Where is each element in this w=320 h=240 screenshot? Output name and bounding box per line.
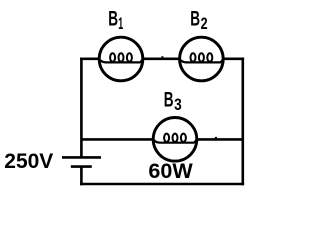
label B1 [108,7,123,33]
wire left vertical (battery + to top branch) [80,58,83,158]
battery positive plate (long) [62,156,101,159]
svg-text:3: 3 [174,95,182,114]
svg-text:250V: 250V [4,150,53,173]
svg-text:2: 2 [201,14,208,33]
svg-text:B: B [164,89,174,112]
label B2 [190,7,207,33]
wire top branch [80,57,244,60]
lamp B2 [180,37,224,81]
svg-text:B: B [190,7,200,30]
lamp B3 [153,118,197,162]
svg-text:B: B [108,7,118,30]
svg-text:1: 1 [118,14,123,33]
wire right vertical [242,58,245,186]
lamp B1 [99,37,143,81]
label B3 [164,89,182,115]
junction tick on top wire [161,56,163,59]
wire bottom [80,183,244,186]
battery negative plate (short) [71,165,92,168]
wire middle branch (B3) [81,138,242,141]
svg-text:60W: 60W [148,160,192,183]
junction tick on middle wire [215,137,217,140]
wire battery - to bottom [80,167,83,186]
